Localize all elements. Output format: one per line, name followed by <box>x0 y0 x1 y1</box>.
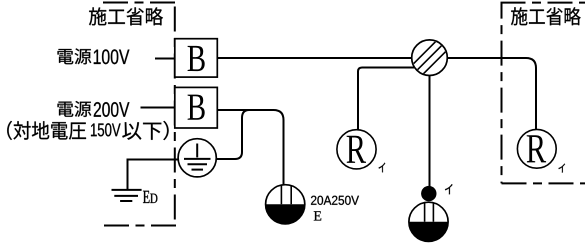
ground electrode symbol ED <box>112 190 142 201</box>
label 施工省略 right <box>511 7 581 25</box>
label 20A250V <box>311 196 359 205</box>
right omission boundary box left edge <box>501 3 503 184</box>
switch R (left) with mark i <box>337 130 376 169</box>
wire: earth terminal to ground electrode <box>128 160 183 191</box>
breaker B1 (100V) <box>175 39 218 77</box>
left omission boundary box right edge <box>174 3 176 226</box>
label E <box>314 211 321 220</box>
wire: B2 output to 250V outlet <box>217 110 284 186</box>
wire: junction box right to lamp R in right box <box>447 58 537 130</box>
middle outlet with switch dot <box>409 186 448 242</box>
wire: earth terminal to 250V outlet branch <box>215 110 249 159</box>
right omission boundary box top edge <box>501 2 585 4</box>
250V outlet (20A250V E) <box>266 185 305 224</box>
wire: junction box to switch R (left), down <box>358 68 414 131</box>
left omission boundary box bottom edge <box>104 225 176 227</box>
lamp R (right, in omission box) <box>517 129 556 168</box>
right omission boundary box bottom edge <box>502 182 585 184</box>
label 電源100V <box>58 48 92 64</box>
left omission boundary box (chain line) top edge <box>103 2 178 4</box>
earth terminal (circle with ground symbol) <box>178 139 216 177</box>
label ED <box>143 191 150 203</box>
label 施工省略 left <box>89 7 163 25</box>
mark i for middle outlet <box>445 184 453 194</box>
wire: 100V source into breaker B1 <box>155 58 176 60</box>
label 対地電圧150V以下 <box>7 121 86 140</box>
label 電源200V <box>58 101 92 117</box>
wire: junction box down to outlet (middle) <box>429 74 431 187</box>
mark i for left R <box>379 163 386 173</box>
wire: B1 output to junction box <box>217 57 414 59</box>
junction box (hatched circle) <box>405 33 455 83</box>
breaker B2 (200V) <box>175 87 218 128</box>
mark i for right R <box>559 164 566 173</box>
wire: 200V source into breaker B2 <box>141 107 177 109</box>
